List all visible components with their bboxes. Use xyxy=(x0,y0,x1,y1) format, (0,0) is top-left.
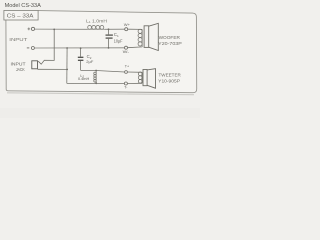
svg-text:INPUT: INPUT xyxy=(9,37,27,42)
svg-text:TWEETER: TWEETER xyxy=(159,72,181,77)
svg-text:T+: T+ xyxy=(125,65,129,69)
svg-text:Y20-703P: Y20-703P xyxy=(158,41,182,46)
svg-text:W+: W+ xyxy=(124,22,131,27)
svg-text:10µF: 10µF xyxy=(114,38,123,43)
svg-text:0.4mH: 0.4mH xyxy=(78,77,90,81)
svg-text:2µF: 2µF xyxy=(86,59,94,64)
svg-text:CS – 33A: CS – 33A xyxy=(7,14,34,20)
svg-text:Y10-905P: Y10-905P xyxy=(158,79,180,84)
svg-text:WOOFER: WOOFER xyxy=(159,35,180,40)
svg-text:JACK: JACK xyxy=(16,67,25,72)
svg-text:W-: W- xyxy=(123,49,130,54)
svg-text:Model CS-33A: Model CS-33A xyxy=(5,3,42,9)
svg-text:L1 1.0mH: L1 1.0mH xyxy=(86,19,107,25)
svg-text:INPUT: INPUT xyxy=(11,61,26,66)
svg-text:C1: C1 xyxy=(114,32,119,38)
